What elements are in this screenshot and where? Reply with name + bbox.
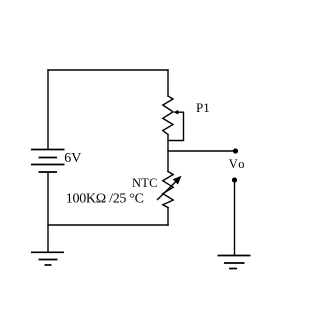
svg-text:o: o bbox=[238, 157, 244, 171]
svg-text:P1: P1 bbox=[196, 100, 210, 115]
svg-text:NTC: NTC bbox=[132, 176, 158, 190]
svg-text:6V: 6V bbox=[64, 151, 81, 166]
svg-text:V: V bbox=[229, 157, 238, 171]
svg-text:100KΩ /25 °C: 100KΩ /25 °C bbox=[66, 192, 144, 207]
